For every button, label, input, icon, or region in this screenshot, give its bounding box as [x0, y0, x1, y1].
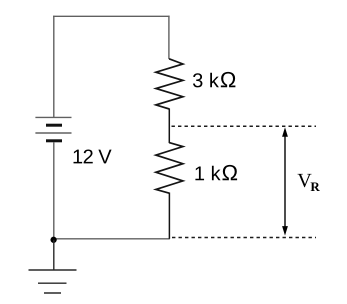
ground symbol line 1 [29, 269, 77, 271]
arrow VR head bottom [282, 226, 288, 236]
resistor R1 zigzag (3k) [156, 59, 183, 109]
wire ground stub [53, 240, 55, 270]
battery B1 short thick plate upper [46, 124, 62, 127]
battery B1 long plate top [35, 116, 71, 118]
label R1 value 3 kOhm [193, 72, 235, 88]
wire right vertical upper [168, 16, 170, 59]
ground symbol line 2 [38, 282, 67, 284]
arrow VR head top [282, 127, 288, 137]
battery B1 long plate middle [35, 132, 71, 134]
wire left vertical lower [53, 142, 55, 239]
wire bottom horizontal [53, 238, 169, 240]
wire below R2 [168, 193, 170, 239]
wire left vertical upper [53, 16, 55, 117]
junction node dot [50, 237, 56, 243]
arrow VR shaft [284, 134, 286, 228]
label R2 value 1 kOhm [195, 165, 237, 180]
battery B1 short thick plate lower [46, 139, 62, 142]
dashed node line lower [172, 237, 316, 239]
ground symbol line 3 [44, 292, 61, 294]
dashed node line upper [172, 125, 317, 127]
wire top horizontal [53, 15, 170, 17]
resistor R2 zigzag (1k) [156, 143, 183, 194]
label VR letter V [298, 174, 312, 187]
wire between resistors [168, 109, 170, 144]
label VR subscript R [311, 182, 320, 191]
label 12 V [74, 149, 112, 163]
